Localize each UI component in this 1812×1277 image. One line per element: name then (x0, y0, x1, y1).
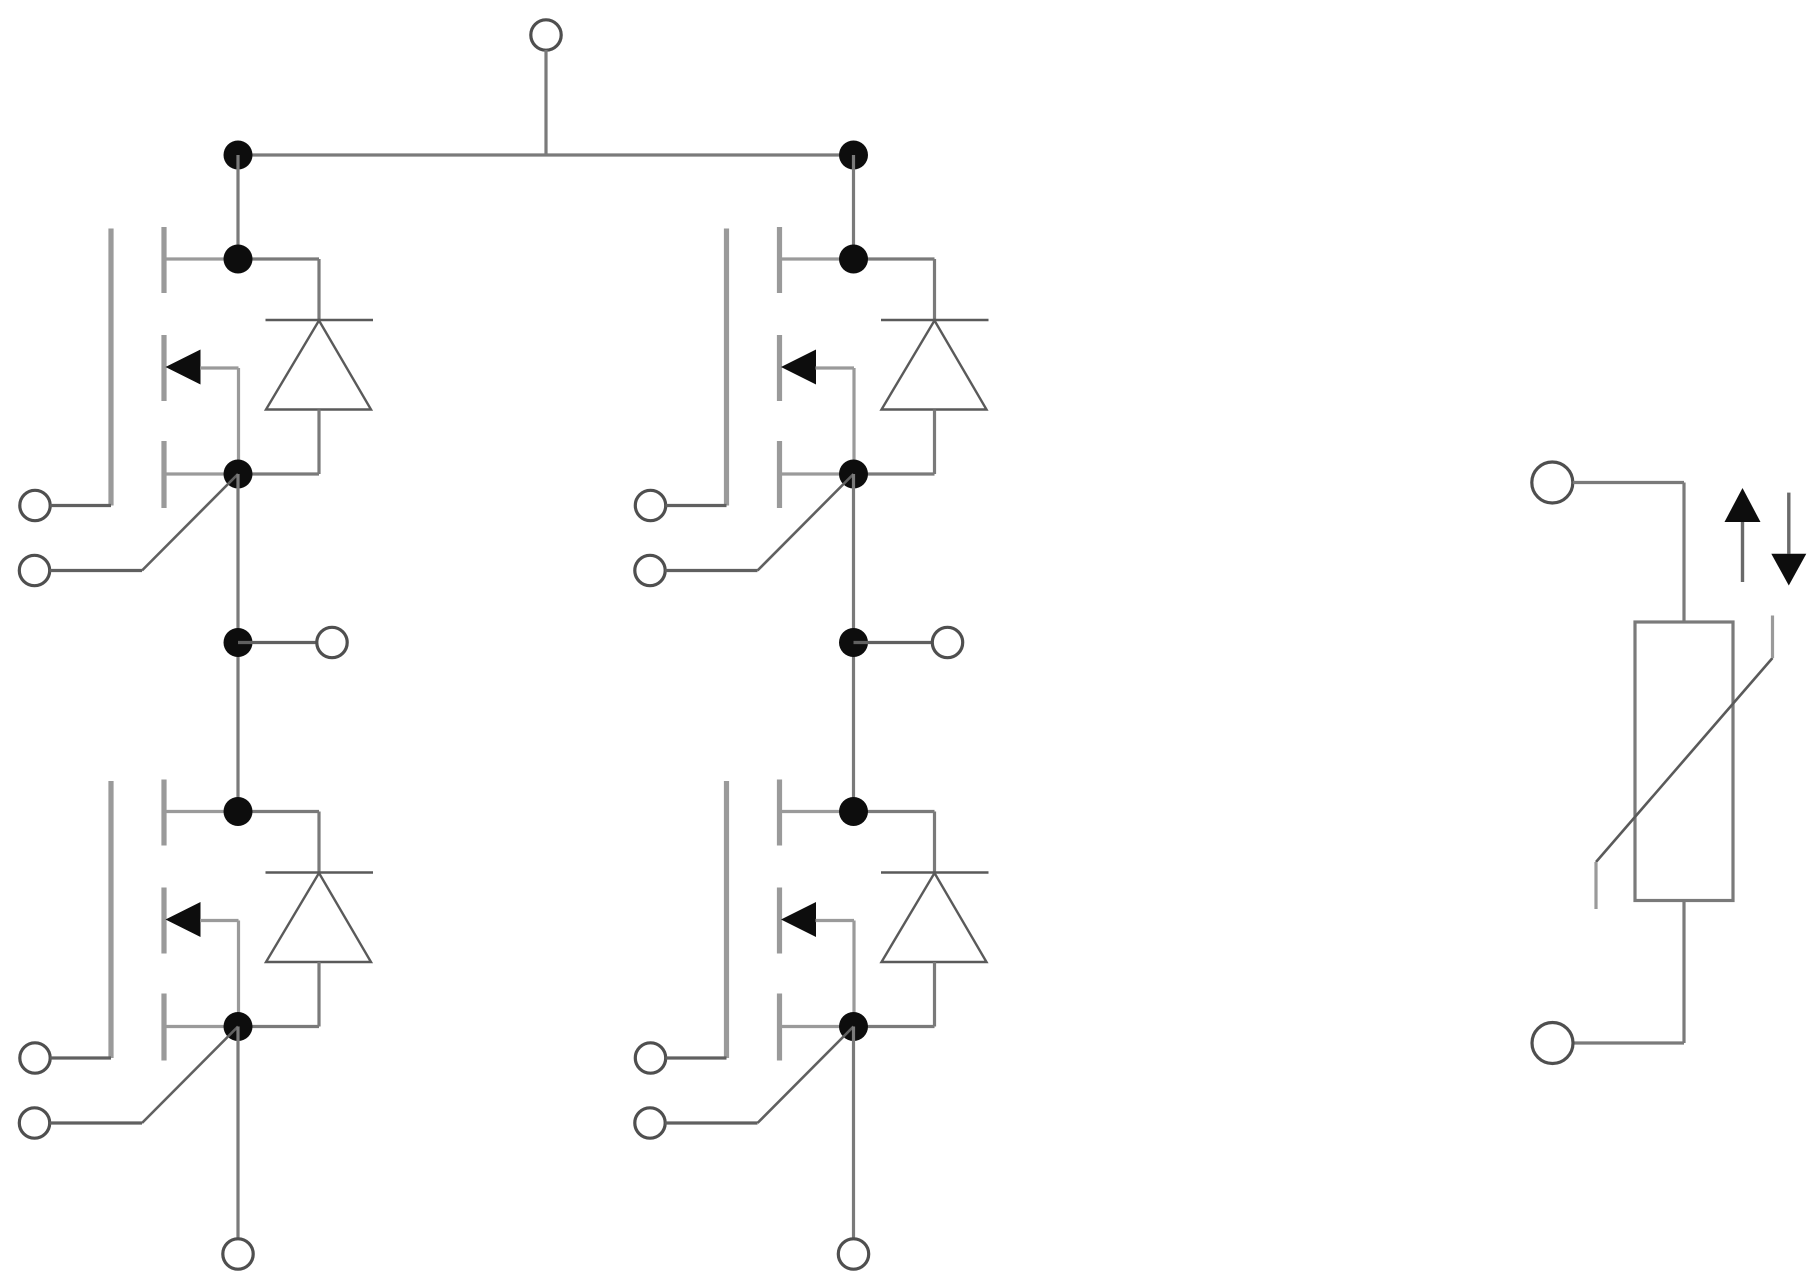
terminal G4 gate (635, 1043, 665, 1073)
thermistor RT1 (NTC) body (1635, 622, 1733, 901)
wire Kelvin source lead S3 (665, 474, 854, 571)
wire DC+ bus (238, 153, 854, 156)
node: Q3 source junction (839, 460, 868, 489)
wire right phase output lead (854, 641, 933, 644)
transistor Q4 body wire to source (816, 921, 855, 1027)
wire Kelvin source lead S2 (50, 1027, 239, 1124)
node: Q1 source junction (224, 460, 253, 489)
transistor Q3 body wire to source (816, 368, 855, 474)
node: Q2 source junction (224, 1012, 253, 1041)
wire Q1 source to Q2 drain (left phase rail) (236, 474, 239, 812)
transistor Q4 body arrow (points into channel) (781, 902, 816, 937)
terminal G2 gate (20, 1043, 50, 1073)
terminal right phase output (932, 627, 962, 657)
wire Kelvin source lead S1 (50, 474, 239, 571)
wire gate lead G3 (666, 504, 727, 507)
transistor Q3 gate electrode bar (724, 229, 729, 506)
transistor Q3 source stub (780, 472, 854, 475)
wire Q4 source to DC- terminal (right) (852, 1027, 855, 1240)
node: Q4 drain junction (839, 797, 868, 826)
transistor Q2 channel bar (dashed) (161, 780, 166, 1061)
terminal left phase output (317, 627, 347, 657)
transistor Q2 drain stub (164, 810, 238, 813)
wire left phase output lead (238, 641, 317, 644)
node: left phase output junction (224, 628, 253, 657)
transistor Q1 source stub (164, 472, 238, 475)
diode D4 anti-parallel body diode (854, 812, 989, 1027)
diode D3 anti-parallel body diode (854, 259, 989, 474)
node: Q3 drain junction (839, 245, 868, 274)
arrow down (temperature) (1771, 493, 1806, 586)
wire NTC top lead (1573, 483, 1684, 623)
terminal DC- (right leg bottom) (838, 1239, 868, 1269)
wire DC+ terminal to bus (544, 50, 547, 155)
transistor Q4 source stub (780, 1025, 854, 1028)
transistor Q4 drain stub (780, 810, 854, 813)
wire gate lead G2 (50, 1056, 111, 1059)
terminal S1 auxiliary (Kelvin) source (19, 555, 49, 585)
node: Q4 source junction (839, 1012, 868, 1041)
terminal NTC bottom (1532, 1023, 1573, 1064)
transistor Q2 body wire to source (200, 921, 239, 1027)
arrow up (resistance rise) (1725, 488, 1761, 582)
wire gate lead G1 (50, 504, 111, 507)
terminal S3 auxiliary (Kelvin) source (635, 555, 665, 585)
terminal DC+ (top) (531, 20, 561, 50)
transistor Q1 channel bar (dashed) (161, 227, 166, 508)
terminal G1 gate (20, 490, 50, 520)
wire Kelvin source lead S4 (665, 1027, 854, 1124)
transistor Q3 body arrow (points into channel) (781, 350, 816, 385)
transistor Q3 channel bar (dashed) (777, 227, 782, 508)
wire NTC bottom lead (1573, 901, 1684, 1044)
terminal S4 auxiliary (Kelvin) source (635, 1108, 665, 1138)
node: Q2 drain junction (224, 797, 253, 826)
diode D1 anti-parallel body diode (238, 259, 373, 474)
transistor Q1 body arrow (points into channel) (166, 350, 201, 385)
transistor Q4 gate electrode bar (724, 781, 729, 1058)
terminal DC- (left leg bottom) (223, 1239, 253, 1269)
transistor Q1 body wire to source (200, 368, 239, 474)
transistor Q1 drain stub (164, 257, 238, 260)
wire gate lead G4 (666, 1056, 727, 1059)
wire bus to Q3 drain (852, 155, 855, 259)
wire bus to Q1 drain (236, 155, 239, 259)
node: right phase output junction (839, 628, 868, 657)
node: bus / left leg junction (224, 141, 253, 170)
transistor Q4 channel bar (dashed) (777, 780, 782, 1061)
transistor Q1 gate electrode bar (108, 229, 113, 506)
transistor Q2 body arrow (points into channel) (166, 902, 201, 937)
node: Q1 drain junction (224, 245, 253, 274)
node: bus / right leg junction (839, 141, 868, 170)
wire Q3 source to Q4 drain (right phase rail) (852, 474, 855, 812)
terminal G3 gate (635, 490, 665, 520)
diode D2 anti-parallel body diode (238, 812, 373, 1027)
transistor Q3 drain stub (780, 257, 854, 260)
terminal S2 auxiliary (Kelvin) source (19, 1108, 49, 1138)
transistor Q2 gate electrode bar (108, 781, 113, 1058)
wire Q2 source to DC- terminal (left) (236, 1027, 239, 1240)
terminal NTC top (1532, 462, 1573, 503)
transistor Q2 source stub (164, 1025, 238, 1028)
thermistor RT1 temperature stroke (1596, 616, 1773, 910)
